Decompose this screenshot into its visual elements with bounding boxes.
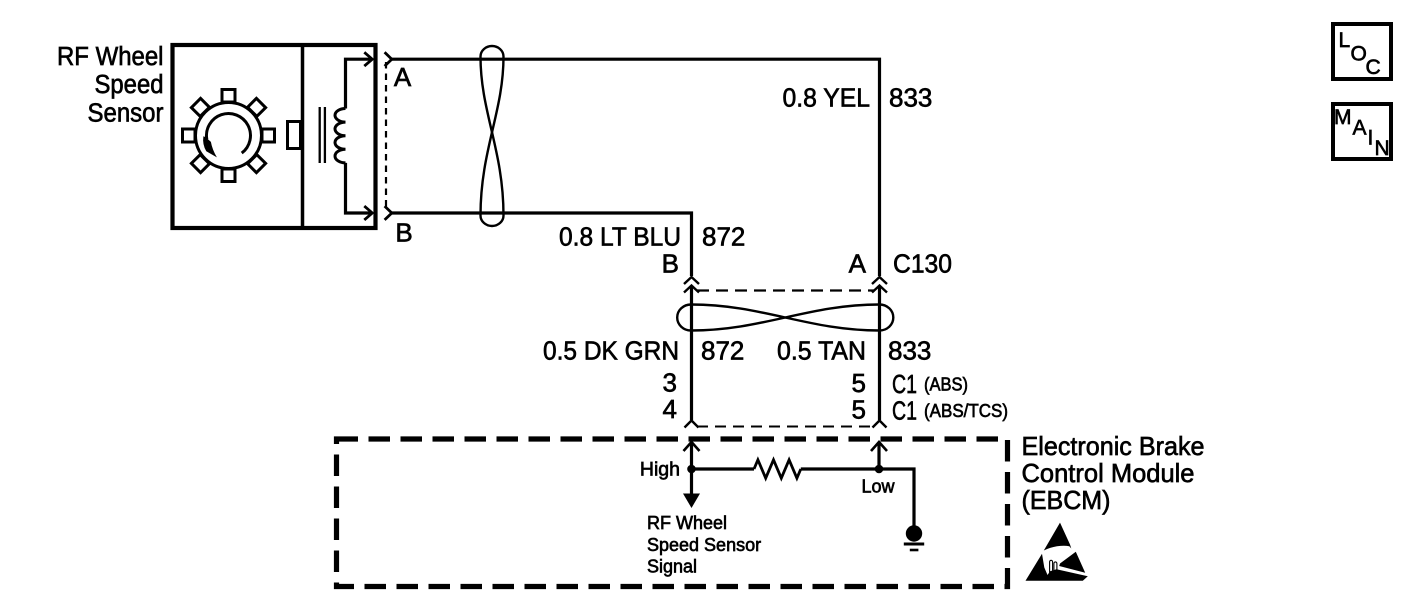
C130 dashed mating line [697,289,874,291]
svg-text:872: 872 [702,222,745,252]
label Electronic Brake Control Module (EBCM) [1022,431,1205,515]
svg-text:O: O [1351,43,1367,66]
wire resistor to Low [801,467,879,470]
svg-text:4: 4 [663,394,677,424]
wire label 0.5 TAN 833 [777,336,931,366]
svg-text:5: 5 [852,368,866,398]
coil top pin arrow (male) [364,52,372,66]
ground G [906,525,922,541]
svg-text:(EBCM): (EBCM) [1022,485,1111,515]
ESD symbol [1026,523,1088,581]
svg-text:(ABS/TCS): (ABS/TCS) [924,400,1008,421]
svg-text:833: 833 [889,83,932,113]
svg-text:A: A [1353,117,1367,140]
svg-text:0.8 YEL: 0.8 YEL [783,83,871,113]
wire label 0.8 LT BLU 872 [559,222,745,252]
svg-text:0.5 TAN: 0.5 TAN [777,336,866,366]
wire label 0.8 YEL 833 [783,83,933,113]
pin B female chevron [385,206,392,220]
EBCM dashed box [337,439,1008,587]
C130 left female chevron [684,277,699,284]
svg-text:Signal: Signal [647,557,697,577]
coil top lead [346,59,373,108]
svg-text:Speed Sensor: Speed Sensor [647,535,761,555]
wire TAN vertical [878,286,881,421]
tone wheel teeth [183,90,275,182]
svg-text:N: N [1375,137,1390,160]
EBCM right pin chevron [871,442,887,451]
svg-text:Sensor: Sensor [88,100,164,128]
node High junction [687,465,696,474]
wire Low to ground drop [879,469,914,527]
svg-text:833: 833 [888,336,931,366]
EBCM entry right fork (female) [873,421,887,428]
wire DK GRN vertical [690,286,693,421]
svg-text:L: L [1339,29,1351,52]
C130 right female chevron [872,277,887,284]
LOC box [1333,24,1391,79]
wire B light blue 872 [392,213,692,276]
svg-text:3: 3 [663,368,677,398]
svg-text:Low: Low [862,477,896,497]
label RF Wheel Speed Sensor Signal [647,513,761,577]
EBCM left pin chevron [684,442,700,451]
svg-text:A: A [849,249,867,279]
svg-text:RF Wheel: RF Wheel [57,43,164,71]
svg-text:A: A [394,62,412,92]
EBCM right pin wire [877,442,880,469]
resistor R [754,460,801,478]
svg-text:0.8 LT BLU: 0.8 LT BLU [559,222,681,252]
pin A female chevron [385,52,392,66]
label RF Wheel Speed Sensor [57,43,164,128]
svg-text:C1: C1 [892,396,917,426]
svg-text:0.5 DK GRN: 0.5 DK GRN [543,336,679,366]
svg-text:872: 872 [701,336,744,366]
EBCM left pin wire [690,442,693,469]
svg-text:B: B [662,249,679,279]
MAIN box [1333,104,1391,159]
svg-text:Speed: Speed [95,71,164,99]
svg-text:M: M [1334,106,1352,129]
C130 right male chevron [872,286,887,293]
coil bottom pin arrow (male) [364,206,372,220]
twisted pair symbol (horizontal) [677,305,893,331]
inductor coil L [335,109,346,163]
EBCM entry left fork (female) [685,421,699,428]
twisted pair symbol (vertical) [481,46,504,226]
svg-text:Electronic Brake: Electronic Brake [1022,431,1205,461]
connector C130 labels [662,249,952,279]
svg-text:Control Module: Control Module [1022,458,1195,488]
svg-text:I: I [1368,127,1374,150]
sensor box divider [301,45,305,228]
pin row 4 / 5 / C1 (ABS/TCS) [663,394,1008,426]
sensor box [173,45,376,228]
ESD hand fingers [1045,560,1057,575]
svg-text:High: High [640,459,680,481]
coil bottom lead [346,163,373,213]
wire label 0.5 DK GRN 872 [543,336,744,366]
tone wheel body [196,103,262,169]
svg-text:RF Wheel: RF Wheel [647,513,727,533]
svg-text:C: C [1366,56,1381,79]
svg-text:B: B [395,217,412,247]
sensor connector dashed line [385,62,387,209]
svg-text:C1: C1 [892,369,917,399]
svg-text:5: 5 [852,395,866,425]
wire A yellow 833 [392,59,880,276]
C130 left male chevron [684,286,699,293]
tone wheel rotation arrow [206,114,250,154]
sensor pole piece [288,122,301,149]
EBCM entry dashed mating line [697,426,874,428]
svg-text:(ABS): (ABS) [924,374,968,395]
svg-text:C130: C130 [893,249,952,279]
transformer core lines [319,107,321,163]
wire High to resistor [692,467,755,470]
pin row 3 / 5 / C1 (ABS) [663,368,968,400]
node Low junction [875,465,884,474]
signal arrow down [690,469,693,494]
